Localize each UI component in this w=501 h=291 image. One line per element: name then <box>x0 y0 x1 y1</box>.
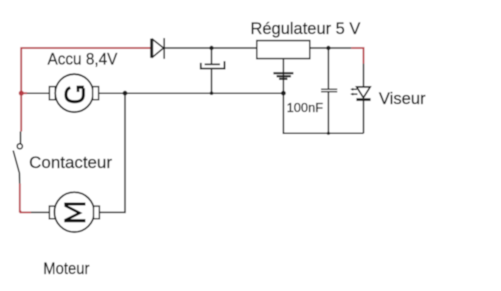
wire: regulator ground pin down <box>282 59 284 94</box>
capacitor C2 100nF top wire <box>327 48 329 89</box>
switch S1 contact circle <box>17 144 22 149</box>
LED D2 emission arrow 1 <box>350 88 357 96</box>
diode D1 triangle outline <box>152 39 164 58</box>
svg-text:Accu 8,4V: Accu 8,4V <box>48 50 118 69</box>
switch S1 blade (open) <box>13 151 20 184</box>
node: motor return junction <box>123 91 128 96</box>
LED D2 emission arrow 2 <box>352 93 358 95</box>
battery/generator G1 body circle <box>55 74 93 112</box>
node: mid rail / ground corner junction <box>281 91 286 96</box>
capacitor C1 top plate <box>205 63 220 65</box>
diode D1 cathode bar <box>163 38 165 59</box>
svg-text:Contacteur: Contacteur <box>29 153 112 172</box>
LED D2 triangle <box>357 87 371 98</box>
capacitor C1 (polarized) top wire <box>211 48 213 64</box>
wire: mid rail (0V) from battery to ground corner <box>99 92 284 94</box>
wire: black to battery left terminal <box>27 92 49 94</box>
node A: battery + node (red) <box>19 91 24 96</box>
motor M1 body circle <box>54 192 94 232</box>
ground symbol <box>273 73 293 79</box>
wire: motor return vertical + horizontal <box>99 93 125 212</box>
wire: red down to motor corner and over <box>20 184 31 213</box>
node: bottom rail / C2 junction <box>327 132 330 135</box>
wire: black to motor left terminal <box>31 211 49 213</box>
svg-text:Moteur: Moteur <box>43 259 90 278</box>
node: top rail / C2 junction <box>326 46 330 50</box>
LED D2 wire below cathode <box>363 100 365 134</box>
wire: top right red segment down to LED <box>351 48 363 64</box>
motor M1 right terminal <box>94 206 100 219</box>
svg-text:100nF: 100nF <box>287 100 324 115</box>
capacitor C2 plates <box>321 88 337 90</box>
node: top rail / C1 junction <box>209 46 213 50</box>
wire: red from node down to switch <box>20 93 22 131</box>
svg-text:Régulateur 5 V: Régulateur 5 V <box>251 19 361 38</box>
battery/generator G1 right terminal <box>93 87 99 100</box>
wire: top rail black segment (regulator output rightwards) <box>310 47 352 49</box>
capacitor C1 bottom wire <box>211 69 213 94</box>
wire: black vertical into LED anode <box>363 64 365 87</box>
battery/generator G1 rotated G glyph <box>66 87 84 102</box>
wire: red stub from + node towards battery <box>21 92 27 94</box>
node: mid rail / C1 junction <box>210 91 214 95</box>
LED D2 cathode bar <box>356 98 370 101</box>
svg-text:Viseur: Viseur <box>379 89 426 108</box>
battery/generator G1 left terminal <box>49 87 55 100</box>
diode D1 anode thick bar <box>150 39 153 58</box>
capacitor C2 bottom wire <box>327 92 329 134</box>
regulator U1 box <box>257 41 310 59</box>
motor M1 left terminal <box>49 206 55 219</box>
wire: top rail black segment (diode cathode to regulator input) <box>164 47 257 49</box>
capacitor C1 bottom cup <box>201 61 225 68</box>
wire: top rail red segment (battery + up and over to diode anode) <box>21 48 150 93</box>
wire: 0V down to bottom rail and bottom rail to LED <box>283 93 363 133</box>
wire: black stub above switch contact <box>20 132 22 144</box>
motor M1 rotated M glyph <box>64 204 85 221</box>
